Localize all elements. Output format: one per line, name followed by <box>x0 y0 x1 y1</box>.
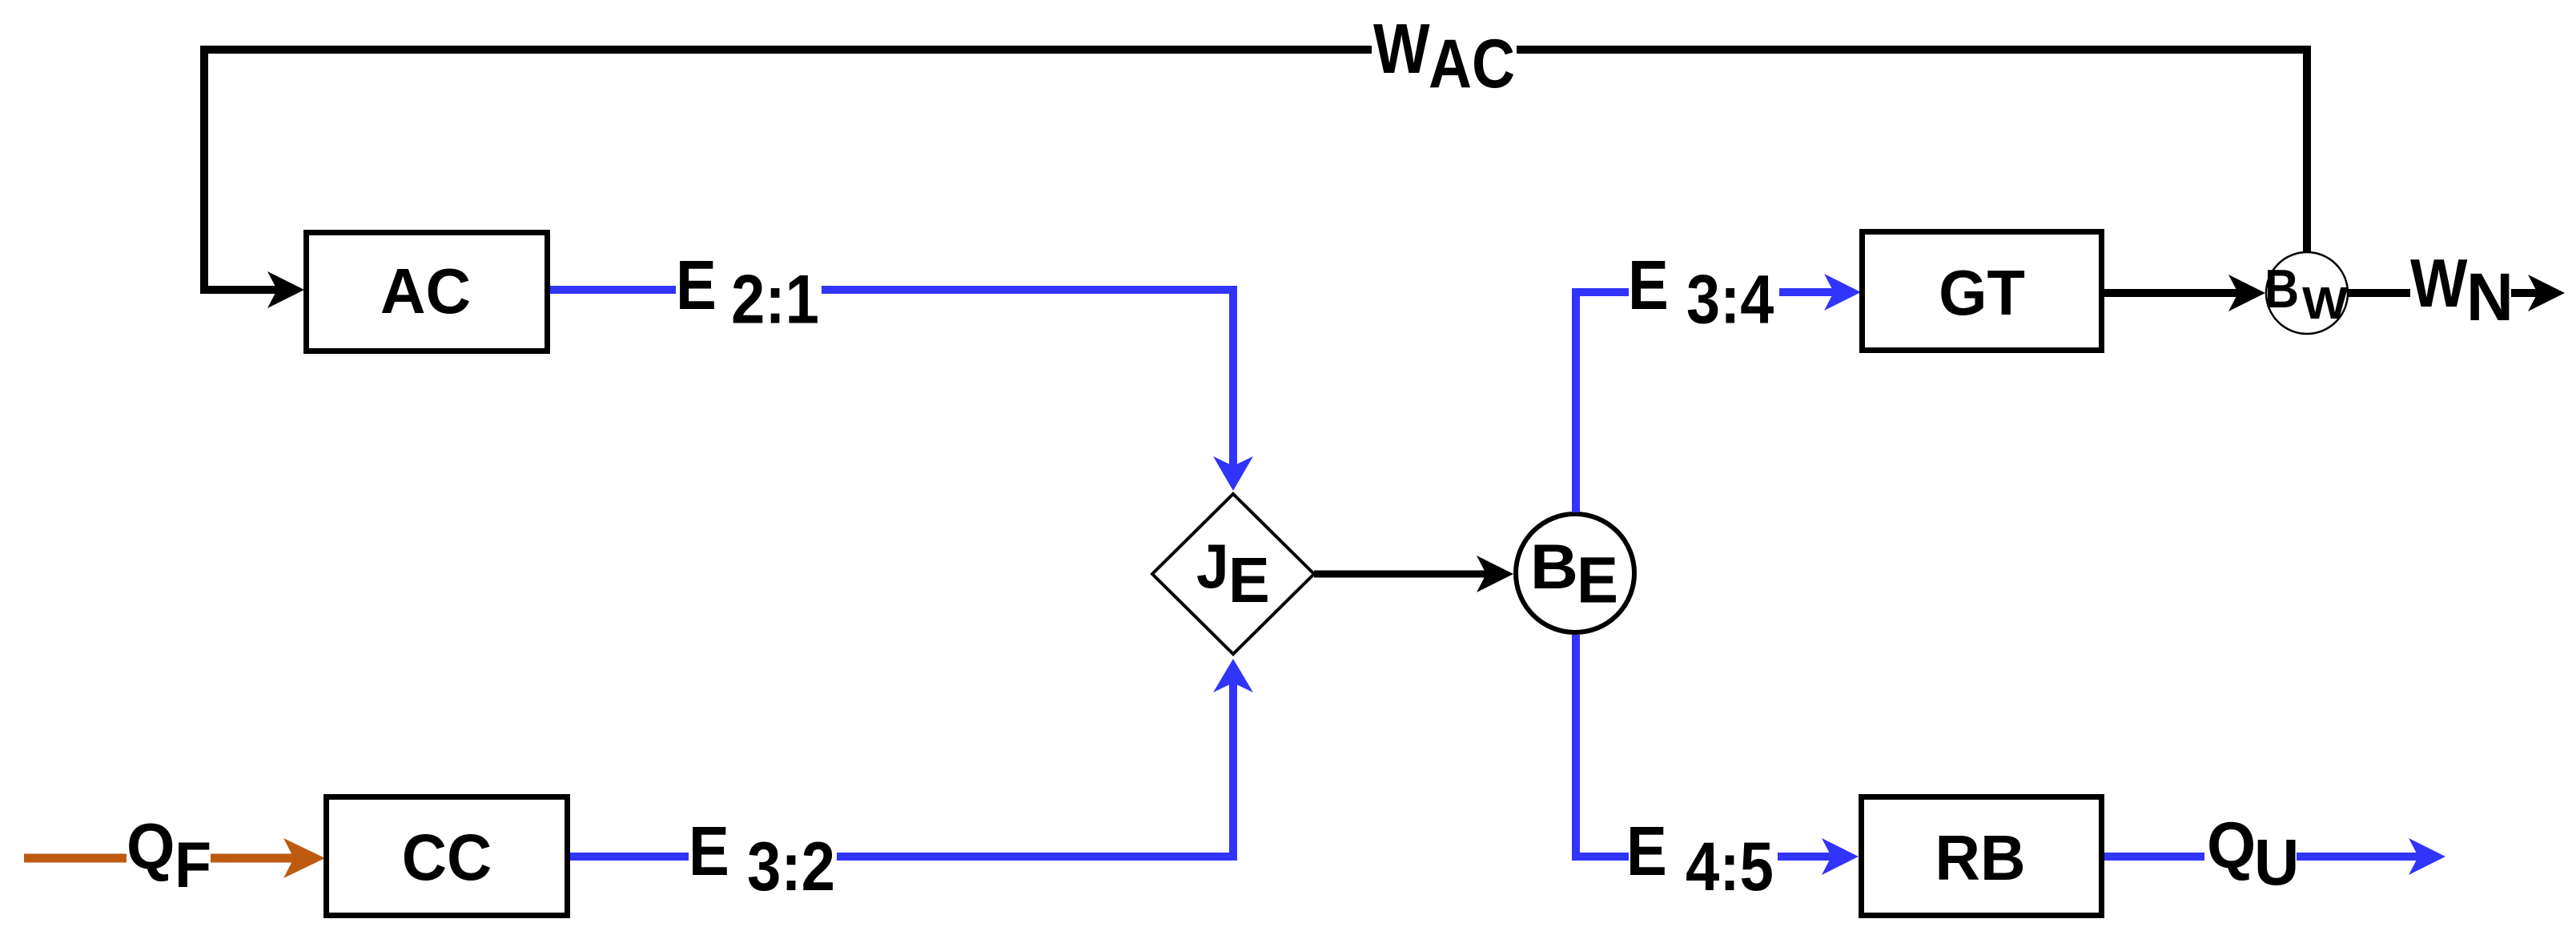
wire E3:4 label to GT <box>1779 288 1835 296</box>
svg-text:4:5: 4:5 <box>1686 829 1774 905</box>
svg-text:CC: CC <box>402 821 492 893</box>
wire RB to Q_U label (blue) <box>2104 853 2204 861</box>
wire blue arrowhead into diamond top <box>1213 456 1253 491</box>
svg-text:Q: Q <box>127 810 175 883</box>
wire Q_F label to CC (brown) <box>211 854 295 863</box>
wire W_AC left vertical down to AC inlet <box>204 46 279 290</box>
wire brown arrowhead into CC <box>283 838 325 878</box>
svg-text:W: W <box>2410 246 2467 322</box>
wire arrowhead W_N out <box>2528 275 2565 311</box>
node E 3:2 label <box>689 813 835 905</box>
svg-text:GT: GT <box>1939 257 2025 328</box>
svg-text:E: E <box>676 247 717 324</box>
svg-text:F: F <box>175 828 211 901</box>
wire blue arrowhead into RB <box>1822 838 1859 875</box>
wire B_W to W_N label <box>2348 289 2410 297</box>
wire E4:5 label to RB <box>1778 853 1833 861</box>
svg-text:B: B <box>2265 258 2299 319</box>
wire blue arrowhead Q_U out <box>2409 838 2445 875</box>
svg-text:W: W <box>1373 10 1430 88</box>
node E 4:5 label <box>1626 813 1774 905</box>
svg-text:J: J <box>1196 532 1229 601</box>
wire blue arrowhead into GT <box>1824 274 1861 311</box>
wire E3:2 label to corner then up to J_E bottom <box>837 681 1233 857</box>
wire arrowhead into B_E <box>1477 556 1513 592</box>
block GT <box>1863 232 2102 351</box>
svg-text:AC: AC <box>380 255 471 327</box>
node Q_U label <box>2207 809 2299 899</box>
junction diamond J_E <box>1152 494 1314 654</box>
wire W_AC right vertical down to B_W <box>2303 50 2311 253</box>
svg-text:U: U <box>2254 825 2299 898</box>
wire W_AC top horizontal right segment <box>1517 46 2311 54</box>
wire B_E up and to E3:4 label <box>1576 292 1629 512</box>
wire blue arrowhead into diamond bottom <box>1213 659 1253 692</box>
wire J_E to B_E (black arrow) <box>1314 571 1489 578</box>
svg-text:N: N <box>2466 259 2514 335</box>
svg-text:2:1: 2:1 <box>731 261 819 338</box>
svg-text:3:2: 3:2 <box>747 829 835 905</box>
node circle B_E <box>1516 514 1634 632</box>
svg-text:RB: RB <box>1935 821 2025 893</box>
svg-text:E: E <box>689 813 729 890</box>
wire W_AC top horizontal left segment <box>204 46 1372 54</box>
wire arrowhead into B_W <box>2228 275 2265 311</box>
wire arrowhead into AC <box>267 271 304 308</box>
node circle B_W <box>2265 252 2349 334</box>
block RB <box>1862 797 2102 916</box>
node W_AC label <box>1373 10 1515 102</box>
svg-text:E: E <box>1577 544 1618 616</box>
svg-text:3:4: 3:4 <box>1686 262 1774 339</box>
block CC <box>327 797 568 916</box>
wire W_N output arrow <box>2511 289 2539 297</box>
wire AC to E2:1 label (blue) <box>550 286 676 294</box>
svg-text:W: W <box>2302 279 2349 329</box>
svg-text:B: B <box>1530 532 1578 603</box>
svg-text:E: E <box>1228 544 1270 616</box>
wire CC to E3:2 label (blue) <box>570 853 689 861</box>
node E 2:1 label <box>676 247 819 338</box>
svg-text:E: E <box>1628 247 1669 324</box>
node E 3:4 label <box>1628 247 1774 338</box>
wire Q_U output arrow (blue) <box>2297 853 2420 861</box>
wire Q_F inlet (brown) <box>24 854 127 863</box>
wire E2:1 label to corner then down to J_E <box>822 290 1233 467</box>
wire B_E down to corner then to E4:5 label <box>1576 635 1629 857</box>
node Q_F label <box>127 810 211 901</box>
svg-text:AC: AC <box>1429 26 1515 102</box>
node W_N label <box>2410 246 2514 335</box>
svg-text:E: E <box>1626 813 1667 890</box>
block AC <box>307 233 548 351</box>
wire GT to B_W (black) <box>2104 289 2240 297</box>
svg-text:Q: Q <box>2207 809 2256 883</box>
